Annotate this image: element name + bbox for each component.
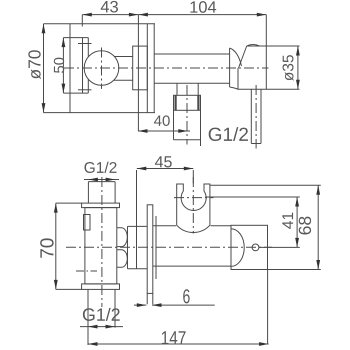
arrow 41 top: [295, 197, 299, 207]
dim text o70: [28, 50, 40, 79]
joint top arc: [230, 48, 242, 66]
joint bottom arc: [230, 87, 238, 89]
bracket right edge lower: [87, 79, 89, 93]
ext 6 left: [146, 293, 148, 304]
top view horizontal centerline: [64, 67, 269, 69]
top view: control knob circle: [84, 51, 119, 86]
label G1/2 top view: [209, 127, 248, 141]
arrow 104 left: [138, 13, 148, 17]
dim line o70: [43, 24, 45, 113]
nut facet band right: [197, 95, 199, 110]
front view main centerline: [66, 246, 272, 248]
top view: square+plate bottom edge: [70, 112, 155, 114]
fitting thread right edge: [200, 110, 202, 146]
holder centerline horizontal: [174, 197, 214, 199]
label G1/2 outlet bottom: [83, 308, 120, 321]
pipe bottom edge (right segment): [154, 82, 229, 84]
dim line 6 right part: [152, 304, 215, 306]
arrow G1/2 bottom left: [88, 325, 98, 329]
ext 41 bottom: [259, 246, 300, 248]
arrow 6 right: [152, 303, 162, 307]
arrow 43 right: [129, 13, 139, 17]
arrow 68 top: [316, 185, 320, 195]
spout joint vertical face: [229, 48, 231, 87]
wall plate left edge: [146, 24, 148, 113]
top view: spout block: [238, 46, 266, 89]
bracket tick top: [78, 43, 92, 45]
dim line 147: [88, 343, 269, 345]
arrow 6 left: [137, 303, 147, 307]
holder centerline vertical: [192, 177, 194, 234]
body vertical centerline: [101, 177, 103, 307]
front view end block: [231, 225, 268, 269]
arrow 147 left: [88, 342, 98, 346]
ext o70 top: [44, 23, 71, 25]
top view: square+plate top edge: [70, 23, 155, 25]
arrow o35 top: [296, 46, 300, 56]
arrow 45 left: [137, 167, 147, 171]
arrow 50 bottom: [62, 84, 66, 94]
ext o35 bottom: [266, 88, 299, 90]
side tab: [84, 215, 91, 231]
arrow 40 right: [178, 129, 188, 133]
ext o35 top: [266, 45, 299, 47]
dim text 70: [40, 238, 53, 257]
arrow G1/2 top left: [88, 178, 98, 182]
arrow 40 left: [138, 129, 148, 133]
bracket right edge upper: [87, 38, 89, 57]
dim line 41: [296, 197, 298, 247]
pipe top edge (left segment): [114, 56, 133, 58]
fitting thread left edge: [173, 110, 175, 139]
dim line 40: [138, 130, 190, 132]
stub centerline: [76, 270, 97, 272]
bracket tick bottom: [78, 89, 92, 91]
dim text 68: [299, 217, 311, 235]
dim text 50: [54, 58, 64, 73]
ext 68 top: [210, 184, 321, 186]
dim text 45: [155, 156, 172, 167]
fitting centerline: [186, 85, 188, 145]
inlet stem top edge: [88, 181, 115, 183]
upper union bump: [117, 228, 127, 247]
union nipple bottom edge: [128, 268, 148, 270]
inlet stem right: [114, 182, 116, 204]
inlet stem left: [87, 182, 89, 204]
ext o70 bottom: [44, 112, 71, 114]
union nut plate left edge: [127, 226, 129, 268]
spout lever diagonal: [239, 46, 247, 68]
lever knob bump: [247, 44, 260, 46]
body bottom cap: [82, 284, 120, 290]
dim line 45: [137, 168, 194, 170]
arrow G1/2 bottom right: [106, 325, 116, 329]
ext 45 right: [192, 170, 194, 184]
dim line 43+104: [82, 14, 266, 16]
screw circle: [252, 244, 259, 251]
dim text 6: [183, 289, 189, 303]
fitting neck right: [197, 83, 199, 95]
dim text 40: [154, 115, 170, 126]
lower union bump: [117, 250, 127, 268]
hanging pipe centerline: [255, 85, 257, 149]
top view: flange at wall: [133, 46, 148, 90]
arrow G1/2 top right: [106, 178, 116, 182]
fitting neck left: [176, 83, 178, 95]
front view wall plate: [147, 205, 153, 294]
dim text 41: [282, 213, 293, 229]
pipe top edge (right segment): [154, 53, 229, 55]
outlet stem right + ext G12: [114, 289, 116, 327]
hanging pipe right edge: [260, 89, 262, 143]
dim line 70: [55, 203, 57, 289]
arrow 70 top: [54, 203, 58, 213]
arrow o35 bottom: [296, 80, 300, 90]
arrow 50 top: [62, 38, 66, 48]
arrow 45 right: [184, 167, 194, 171]
front pipe bottom edge: [153, 265, 231, 267]
pipe bottom edge (left segment): [114, 79, 133, 81]
ext 6 right: [152, 293, 154, 304]
dim line 68: [317, 185, 319, 269]
body top cap: [82, 203, 120, 208]
nut facet band left: [175, 95, 177, 110]
arrow 147 right: [259, 342, 269, 346]
square left edge: [69, 24, 71, 113]
dim line G1/2 top: [84, 179, 119, 181]
ext 41 top: [205, 196, 299, 198]
arrow o70 bottom: [42, 103, 46, 113]
arrow o70 top: [42, 24, 46, 34]
union nut plate right edge + ext 45 left: [136, 170, 138, 269]
dim text 43: [101, 1, 118, 13]
knob vertical centerline: [101, 48, 103, 89]
ext 147 right: [267, 270, 269, 345]
dim line 6 left part: [134, 304, 146, 306]
fitting thread bottom: [174, 139, 201, 141]
holder bracket outline: [177, 184, 210, 225]
holder bracket bottom saddle curve: [177, 225, 210, 232]
ext line 104 right: [265, 15, 267, 46]
dim text o35: [283, 55, 294, 81]
arrow 70 bottom: [54, 280, 58, 290]
dim text 104: [190, 1, 216, 13]
dim text 147: [162, 331, 186, 344]
hanging pipe left edge: [250, 89, 252, 143]
wall plate step line: [155, 216, 157, 279]
ext 70 top: [56, 202, 82, 204]
ext 50 bottom + bracket bottom edge: [63, 92, 88, 94]
ext 50 top + bracket top edge: [63, 37, 88, 39]
fitting hex nut: [174, 95, 201, 110]
union nipple top edge: [128, 225, 148, 227]
arrow 104 right: [257, 13, 267, 17]
ext 68 bottom: [268, 269, 321, 271]
dim line 50: [62, 38, 64, 94]
label G1/2 inlet top: [84, 162, 116, 173]
top view: bracket left edge: [82, 38, 84, 94]
arrow 43 left: [82, 13, 92, 17]
front pipe top edge right of bracket: [211, 225, 232, 227]
end block D-arc: [231, 229, 244, 267]
square right edge + ext 43/104/40: [137, 15, 139, 132]
arrow 41 bottom: [295, 238, 299, 248]
outlet stem left + ext 147: [87, 289, 89, 345]
dim line o35: [297, 46, 299, 89]
wall plate right edge: [153, 24, 155, 113]
front pipe top edge left of bracket: [153, 225, 176, 227]
body main: [85, 208, 117, 284]
ext 70 bottom: [56, 288, 82, 290]
dim line G1/2 bottom: [80, 326, 123, 328]
ext line 43 left: [81, 15, 83, 27]
hanging pipe bottom: [251, 143, 261, 145]
arrow 68 bottom: [316, 260, 320, 270]
